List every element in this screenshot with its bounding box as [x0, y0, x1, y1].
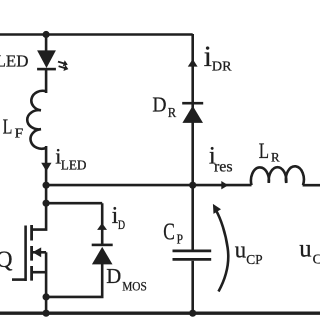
svg-text:CP: CP — [246, 252, 262, 267]
wire LR to right edge — [303, 184, 320, 187]
current arrow iD — [97, 223, 107, 230]
junction dot top — [43, 31, 50, 38]
svg-text:R: R — [271, 150, 280, 165]
wire coil to node junctions — [45, 146, 48, 203]
wire DMOS anode down and across — [46, 264, 102, 297]
wire MOSFET source lead — [33, 271, 47, 274]
junction dot middle rail — [189, 182, 196, 189]
svg-text:P: P — [177, 232, 183, 247]
capacitor CP plates — [173, 251, 212, 260]
transistor Q channel bars — [30, 225, 33, 281]
junction dot node A — [43, 182, 50, 189]
current arrow ires — [221, 181, 228, 189]
svg-text:DR: DR — [212, 58, 232, 73]
voltage arc uCP — [216, 210, 229, 292]
svg-text:D: D — [106, 264, 121, 288]
wire source node to bottom rail — [45, 297, 48, 313]
inductor LR coil — [251, 166, 304, 185]
svg-text:R: R — [168, 105, 176, 120]
LED cathode bar — [37, 68, 56, 71]
wire gate lead — [12, 278, 26, 281]
wire MOSFET body arrow line — [33, 251, 46, 254]
svg-text:D: D — [118, 217, 125, 232]
diode DR cathode bar — [182, 102, 203, 105]
svg-text:L: L — [3, 114, 13, 138]
svg-text:LED: LED — [61, 158, 87, 173]
svg-text:u: u — [235, 237, 246, 264]
inductor LF coil — [27, 91, 46, 149]
LED light arrow 1 — [57, 59, 69, 68]
wire LED cathode to coil — [45, 69, 48, 94]
current arrow iLED — [41, 163, 51, 172]
diode DMOS cathode bar — [92, 244, 113, 247]
svg-text:res: res — [214, 158, 233, 175]
transistor Q gate line — [24, 226, 27, 282]
wire middle column lower — [191, 261, 194, 313]
svg-text:C: C — [313, 252, 320, 267]
current arrow iDR — [188, 59, 198, 67]
LED light arrow 2 — [58, 63, 70, 72]
wire bottom rail — [0, 312, 320, 315]
wire rail node B to DMOS — [46, 203, 102, 245]
wire rail node A horizontal — [46, 184, 251, 187]
junction dot bottom middle — [189, 310, 196, 317]
wire top rail — [0, 33, 193, 36]
svg-text:MOS: MOS — [122, 279, 147, 294]
svg-text:D: D — [152, 93, 166, 117]
diode DR triangle — [182, 106, 203, 123]
svg-text:F: F — [15, 126, 24, 141]
svg-text:L: L — [259, 138, 269, 163]
wire MOSFET source vertical — [45, 252, 48, 297]
LED diode triangle — [37, 50, 56, 68]
junction dot source node — [43, 293, 50, 300]
transistor Q body arrow head — [33, 247, 42, 257]
svg-text:C: C — [163, 220, 175, 246]
voltage arc uCP arrowhead — [213, 204, 221, 214]
wire MOSFET drain lead — [33, 203, 47, 229]
svg-text:Q: Q — [0, 247, 13, 272]
svg-text:LED: LED — [0, 52, 28, 71]
diode DMOS triangle — [92, 247, 113, 265]
wire middle column upper — [191, 34, 194, 250]
junction dot bottom left — [43, 310, 50, 317]
junction dot node B — [43, 200, 50, 207]
wire LED anode segment — [45, 35, 48, 52]
svg-text:u: u — [299, 234, 312, 263]
svg-text:i: i — [204, 40, 212, 73]
